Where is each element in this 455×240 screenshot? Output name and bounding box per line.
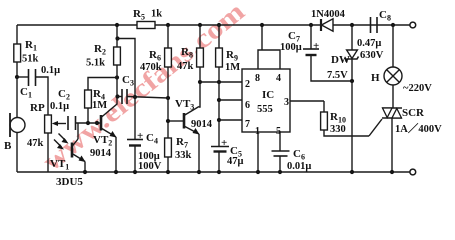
wire pin1 to ground [257, 132, 259, 172]
diode 1N4004 [320, 19, 322, 31]
svg-text:33k: 33k [175, 150, 192, 161]
svg-text:0.1μ: 0.1μ [41, 65, 60, 76]
svg-text:1k: 1k [151, 9, 162, 20]
svg-text:7: 7 [245, 119, 250, 130]
wire pin6 [219, 99, 242, 101]
microphone B [10, 118, 25, 133]
RP wiper arrow [54, 123, 66, 125]
svg-text:47k: 47k [27, 138, 44, 149]
resistor R10 [323, 101, 325, 112]
svg-text:H: H [371, 72, 380, 84]
wire bottom rail [17, 171, 410, 173]
wire pin8 pin4 risers [258, 50, 280, 69]
capacitor C1 [29, 69, 36, 86]
svg-text:B: B [4, 140, 12, 152]
svg-text:RP: RP [30, 102, 45, 114]
svg-text:1: 1 [255, 126, 260, 137]
svg-text:9014: 9014 [191, 119, 213, 130]
zener DW [350, 23, 354, 27]
capacitor C7 [309, 23, 313, 27]
svg-text:+: + [313, 40, 319, 52]
svg-text:2: 2 [245, 79, 250, 90]
svg-text:DW: DW [331, 54, 350, 66]
wire R1 bottom to C1 node [16, 62, 18, 77]
lamp H [392, 25, 394, 67]
resistor R5 [137, 22, 155, 29]
svg-text:1A／400V: 1A／400V [395, 122, 442, 135]
capacitor C8 [371, 17, 378, 33]
transistor VT2 [100, 115, 103, 131]
resistor R6 [166, 23, 170, 27]
capacitor C3 [115, 36, 119, 40]
resistor R7 [165, 138, 172, 157]
svg-text:100μ: 100μ [280, 42, 302, 53]
wire node to C1 [17, 76, 28, 78]
resistor R4 [87, 108, 89, 123]
resistor R1 [14, 44, 21, 62]
capacitor C5 [211, 147, 229, 152]
light arrows into VT1 [59, 134, 67, 142]
svg-text:0.1μ: 0.1μ [50, 101, 69, 112]
svg-text:3DU5: 3DU5 [56, 176, 83, 188]
capacitor C4 [134, 97, 136, 139]
svg-text:47k: 47k [177, 61, 194, 72]
svg-text:~220V: ~220V [403, 83, 432, 94]
svg-text:7.5V: 7.5V [327, 70, 348, 81]
svg-text:SCR: SCR [402, 107, 425, 119]
svg-text:4: 4 [276, 73, 281, 84]
capacitor C2 [68, 116, 76, 130]
svg-text:3: 3 [284, 97, 289, 108]
svg-text:0.47μ: 0.47μ [357, 38, 381, 49]
svg-text:5: 5 [276, 126, 281, 137]
node C1 junction [15, 75, 19, 79]
wire top rail left of R5 [17, 24, 137, 26]
svg-text:IC: IC [262, 89, 274, 101]
terminal bottom [410, 169, 416, 175]
wire top rail right of R5 [155, 24, 410, 26]
wire pin7 [219, 119, 242, 121]
wire pin3 to R10 [290, 100, 324, 102]
capacitor C6 [279, 132, 281, 151]
svg-text:1M: 1M [225, 62, 240, 73]
wire RP bottom to rail [47, 133, 49, 172]
transistor VT3 [168, 120, 184, 122]
svg-text:47μ: 47μ [227, 156, 244, 167]
node R4 base junction [86, 121, 90, 125]
wire zener ground drop [351, 81, 353, 172]
svg-text:5.1k: 5.1k [86, 58, 105, 69]
svg-text:1M: 1M [92, 100, 107, 111]
svg-text:1N4004: 1N4004 [311, 9, 346, 20]
svg-text:630V: 630V [360, 50, 384, 61]
svg-text:555: 555 [257, 104, 273, 115]
svg-text:0.01μ: 0.01μ [287, 161, 311, 172]
wire SCR gate [369, 119, 382, 136]
op-amp U1 IC 555 box [242, 69, 290, 132]
svg-text:9014: 9014 [90, 148, 112, 159]
wire left rail [16, 25, 18, 44]
phototransistor VT1 [71, 143, 74, 158]
svg-text:330: 330 [330, 124, 346, 135]
svg-text:100V: 100V [138, 161, 162, 172]
wire left rail to mic [16, 77, 18, 118]
svg-text:+: + [137, 130, 143, 142]
potentiometer RP [45, 115, 52, 133]
svg-text:+: + [221, 137, 227, 149]
wire VT3 collector to pin2 [200, 81, 242, 83]
resistor R2 [114, 47, 121, 65]
wire C2 to VT2 base [76, 122, 102, 124]
svg-text:51k: 51k [22, 54, 39, 65]
wire VT1 collector riser [77, 123, 79, 139]
wire C1 to RP top [36, 77, 49, 115]
svg-text:470k: 470k [140, 62, 162, 73]
thyristor SCR [382, 107, 402, 109]
svg-text:8: 8 [255, 73, 260, 84]
wire mic to bottom rail [16, 133, 18, 173]
resistor R9 [217, 23, 221, 27]
resistor R8 [198, 23, 202, 27]
terminal top [410, 22, 416, 28]
svg-text:6: 6 [245, 100, 250, 111]
node R4 top junction [115, 75, 119, 79]
